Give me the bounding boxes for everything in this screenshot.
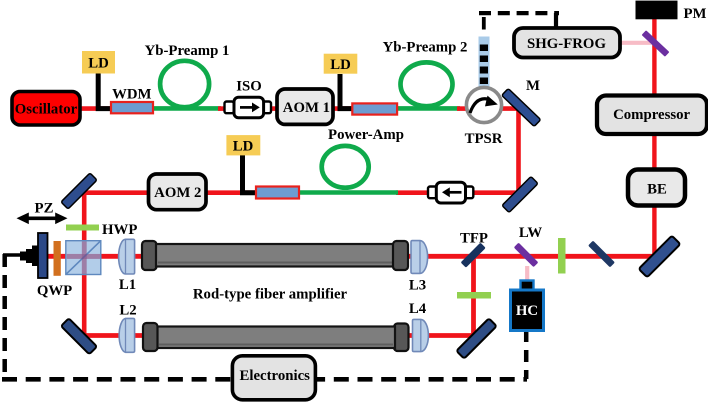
- beamsplitter purple top: [642, 30, 670, 57]
- svg-text:ISO: ISO: [236, 78, 262, 94]
- svg-text:L1: L1: [119, 277, 136, 293]
- SHG-FROG box: [514, 28, 620, 58]
- connector rod2 left: [143, 323, 158, 351]
- camera HC: [521, 281, 534, 291]
- piezo actuator: [20, 252, 27, 261]
- svg-text:LW: LW: [519, 225, 543, 241]
- AOM 1 box: [277, 89, 333, 124]
- svg-text:SHG-FROG: SHG-FROG: [527, 36, 606, 52]
- dashed wire bottom horizontal electronics: [2, 377, 527, 382]
- wire green fiber Power-Amp to WDM3: [297, 190, 398, 195]
- svg-text:TFP: TFP: [460, 231, 488, 247]
- AOM 2 box: [149, 174, 207, 210]
- wire red TFP down to mirror3: [471, 255, 476, 339]
- svg-text:PM: PM: [683, 6, 706, 22]
- mirror2 below M: [502, 176, 538, 212]
- laser diode LD1: [98, 73, 112, 109]
- coupler WDM1: [111, 102, 153, 113]
- arrow PZ double-headed: [23, 217, 61, 221]
- wire red into TPSR: [457, 106, 467, 111]
- wire red into ISO: [218, 106, 228, 111]
- sampler mirror small: [588, 241, 615, 268]
- lens L3: [411, 241, 428, 274]
- svg-text:Power-Amp: Power-Amp: [328, 127, 404, 143]
- wire red main output line left part: [44, 254, 147, 259]
- laser diode LD3: [243, 155, 258, 193]
- wire red ISO to AOM 1: [268, 106, 280, 111]
- isolator row2: [428, 187, 437, 199]
- svg-text:LD: LD: [330, 57, 351, 73]
- lens L4: [413, 319, 429, 351]
- wire green fiber WDM to ISO: [152, 106, 221, 111]
- connector rod2 right: [394, 324, 409, 352]
- mirror big right: [639, 236, 681, 278]
- mirror4 fold bottom left: [61, 318, 97, 354]
- dashed wire left vertical electronics: [2, 254, 7, 379]
- wire red vertical PM to big mirror: [652, 17, 656, 258]
- lens L1: [119, 239, 135, 274]
- connector rod1 right: [393, 241, 408, 270]
- electronics box: [232, 356, 315, 400]
- wire red row2 mirror2 to isolator: [472, 190, 520, 195]
- wire SHG-FROG stub: [554, 13, 558, 29]
- wire stub above fiber stack: [482, 17, 486, 30]
- polarizer TFP: [461, 243, 486, 268]
- circulator TPSR: [466, 87, 501, 122]
- wire solid piezo lead: [3, 253, 22, 257]
- svg-text:L4: L4: [409, 301, 427, 317]
- mirror3 fold below TFP: [456, 318, 496, 358]
- waveplate green horizontal below TFP: [457, 292, 491, 299]
- wire red isolator to green fiber: [396, 190, 430, 195]
- isolator ISO: [225, 102, 234, 114]
- svg-text:Compressor: Compressor: [613, 107, 690, 123]
- wire pink LW down to HC: [525, 266, 529, 282]
- lens L2: [119, 318, 134, 352]
- wire red TPSR to mirror M and down: [501, 109, 519, 195]
- wire pink SHG-FROG to beamsplitter: [619, 41, 653, 45]
- svg-text:Rod-type fiber amplifier: Rod-type fiber amplifier: [193, 287, 348, 303]
- wire red Oscillator to WDM: [78, 106, 114, 111]
- svg-text:TPSR: TPSR: [465, 131, 503, 147]
- svg-text:L2: L2: [119, 303, 136, 319]
- svg-text:Oscillator: Oscillator: [15, 102, 78, 118]
- oscillator box: [12, 92, 80, 126]
- laser diode LD2: [340, 74, 353, 109]
- connector rod1 left: [142, 241, 157, 270]
- svg-text:L3: L3: [409, 278, 426, 294]
- svg-text:PZ: PZ: [35, 201, 54, 217]
- coupler WDM3: [256, 187, 299, 199]
- wire green fiber WDM2 to TPSR: [395, 106, 460, 111]
- rod-type fiber amplifier rod1: [156, 244, 394, 267]
- dashed wire HC down to bottom: [524, 330, 529, 379]
- fiber loop Power-Amp: [322, 146, 369, 188]
- mirror M: [502, 88, 541, 126]
- svg-text:AOM 1: AOM 1: [283, 100, 330, 116]
- svg-text:LD: LD: [88, 56, 109, 72]
- wire red bottom row mirror3 to L4 rod: [407, 333, 476, 338]
- waveplate HWP: [66, 225, 99, 231]
- fiber loop Yb-Preamp 2: [401, 62, 453, 106]
- power meter PM: [636, 1, 678, 20]
- svg-text:BE: BE: [647, 182, 667, 198]
- svg-text:Yb-Preamp 2: Yb-Preamp 2: [383, 40, 468, 56]
- rod-type fiber amplifier rod2: [157, 327, 395, 349]
- wedge LW: [514, 243, 539, 268]
- wire red vertical mirror1 through HWP and cube to mirror4: [82, 190, 87, 337]
- BE box: [628, 170, 685, 206]
- coupler WDM2: [352, 103, 397, 114]
- svg-text:HWP: HWP: [102, 222, 137, 238]
- PBS cube: [66, 241, 101, 275]
- svg-text:AOM 2: AOM 2: [154, 185, 201, 201]
- svg-text:Yb-Preamp 1: Yb-Preamp 1: [145, 43, 230, 59]
- wire red main output line right part: [406, 254, 657, 259]
- waveplate QWP: [54, 241, 61, 276]
- svg-text:Electronics: Electronics: [239, 368, 310, 384]
- wire red AOM 2 to WDM3: [204, 190, 258, 195]
- waveplate green vertical output: [558, 238, 566, 274]
- mirror1 row2 fold: [61, 173, 97, 209]
- wire red bottom row mirror4 to L2 rod: [80, 333, 146, 338]
- svg-text:LD: LD: [233, 138, 254, 154]
- svg-text:WDM: WDM: [112, 86, 151, 102]
- svg-text:M: M: [526, 78, 540, 94]
- svg-text:QWP: QWP: [37, 283, 72, 299]
- dashed wire top horizontal to SHG-FROG: [479, 11, 559, 15]
- fiber loop Yb-Preamp 1: [160, 61, 209, 107]
- wire red mirror1 to AOM 2: [77, 190, 150, 195]
- svg-text:HC: HC: [516, 303, 538, 319]
- wire red AOM 1 to WDM2: [332, 106, 354, 111]
- compressor box: [597, 96, 707, 135]
- fiber stretcher stack above TPSR: [479, 37, 490, 91]
- mirror on piezo: [38, 233, 48, 278]
